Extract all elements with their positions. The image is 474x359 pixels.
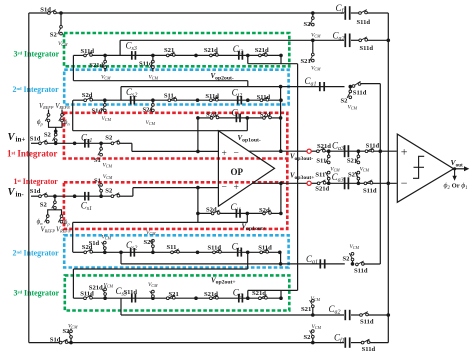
svg-text:S11d: S11d (205, 93, 219, 100)
capacitor Cs2 (2nd row) (130, 96, 132, 105)
2nd int box left edge (120, 87, 122, 101)
node 2nd row x152.9 + S21 vert (151, 98, 155, 102)
node y213.4 x247.3 (246, 212, 250, 216)
svg-text:S21d: S21d (89, 285, 103, 292)
wire vertical x280.6 y252.3-263.4 (280, 252, 282, 264)
node y183.3 x328.7 (327, 182, 331, 186)
node Ci1 row x280.6 (279, 116, 283, 120)
switch S11d (2nd row mid) (210, 99, 213, 102)
node y263.4 x350.3 (351, 262, 355, 266)
node input rail x55.7 (54, 142, 58, 146)
node x197.9 y213.4 (196, 212, 200, 216)
switch S11d (2nd row right) (260, 99, 263, 102)
svg-text:S11d: S11d (354, 268, 368, 275)
3rd int box left edge (119, 40, 121, 55)
switch S1d (bottom rail) (59, 341, 62, 344)
node 3rd row x281 (279, 54, 283, 58)
svg-text:VCM: VCM (102, 116, 112, 122)
svg-text:S1d: S1d (89, 240, 100, 247)
switch S11d (y263.4 to bus A) (356, 263, 359, 266)
switch S11d (bottom rail) (361, 341, 364, 344)
comparator output arrow Vout (454, 168, 465, 170)
switch S2 (y342.6 up to Vcm) (312, 337, 314, 342)
wire Vop2out+ rail y269 (73, 268, 247, 270)
wire Ci1 row y117.9 (198, 117, 212, 119)
node 2nd row x104.8 (103, 98, 107, 102)
2nd int bottom box left edge (120, 252, 122, 264)
svg-text:S2: S2 (40, 202, 48, 209)
node Vop3out- red circle (307, 149, 311, 153)
3rd integrator dashed box (bottom) (65, 275, 289, 310)
capacitor C0 (bottom 3rd row) (238, 294, 240, 303)
switch S2 (VREF mux to input rail) (54, 133, 57, 136)
wire C0 bypass loop (247, 55, 249, 63)
svg-text:VCM: VCM (146, 230, 156, 236)
capacitor Cs1 (input rail) (84, 139, 86, 148)
capacitor Ca3 (y151.2) (344, 145, 346, 157)
switch S2 (bottom-left up to Vcm) (70, 338, 72, 343)
capacitor Ci3 (bottom 3rd row) (131, 294, 133, 303)
switch S1d (input rail) (39, 142, 42, 145)
switch phi_p (VREFP leg) (48, 110, 50, 115)
switch S21d (3rd row mid) (210, 54, 213, 57)
switch S21 (y151.2 to Vcm) (357, 151, 359, 156)
svg-text:S11: S11 (315, 172, 325, 179)
wire Ci1 row y213.4 (198, 212, 213, 214)
node 2nd row x247.8 (246, 98, 250, 102)
svg-text:VCM: VCM (312, 324, 322, 330)
wire drop to op-amp + input (131, 143, 133, 151)
svg-text:VCM: VCM (149, 75, 159, 81)
wire y222.4 (bottom VREF box) (73, 221, 248, 223)
wire step x247.8 to y86.6 (247, 81, 249, 87)
comparator clock symbol (413, 156, 424, 178)
svg-text:VCM: VCM (148, 282, 158, 288)
wire vertical x72.7 y222.4-252.3 (72, 222, 74, 252)
capacitor Ci3 (3rd row) (131, 51, 133, 60)
node on top rail x312.8 (311, 11, 315, 15)
wire rise to op-amp - input (132, 188, 134, 197)
node bus A y151.2 (379, 149, 383, 153)
wire vertical x72.7 (72, 100, 74, 131)
node y252.3 x247.7 (246, 251, 250, 255)
node y151.2 x280.8 (279, 149, 283, 153)
capacitor C0 (3rd row) (238, 51, 240, 60)
node y213.4 x280.9 (279, 212, 283, 216)
wire Vop1out+ output y183.3 (253, 182, 308, 184)
switch S1d (top-left rail) (48, 12, 51, 15)
node 2nd row x281 (279, 98, 283, 102)
wire 2nd-int bottom row y252.3 (73, 251, 85, 253)
svg-text:S21d: S21d (204, 291, 218, 298)
capacitor Ca3 (y183.3) (344, 177, 346, 189)
red box shared right edge (286, 159, 289, 183)
wire VREF mux join (49, 122, 63, 128)
node y252.3 x279.8 (278, 251, 282, 255)
switch S2d (Ci1 row right) (263, 117, 266, 120)
svg-text:V: V (8, 187, 16, 198)
svg-text:S11d: S11d (257, 94, 271, 101)
svg-text:ϕ2 Or ϕ1: ϕ2 Or ϕ1 (444, 181, 468, 191)
op-amp U1 triangle (218, 131, 274, 207)
node y298.9 x281 (279, 296, 283, 300)
node y196.2 x74.6 (73, 194, 77, 198)
node 2nd row x197.5 (196, 98, 200, 102)
switch S11d (y151.2 right) (365, 150, 368, 153)
switch S11d (y86.6 to bus A) (352, 85, 355, 88)
capacitor Ci1 (top) (235, 114, 237, 123)
switch S1d (input rail bottom) (39, 195, 42, 198)
svg-text:S11: S11 (164, 93, 174, 100)
svg-text:S11d: S11d (360, 45, 374, 52)
switch S2d (bottom 2nd row left) (84, 251, 87, 254)
node y196.2 x101.1 (99, 194, 103, 198)
wire rail y86.6 (121, 86, 345, 88)
node y314.3 x312.8 (311, 313, 315, 317)
switch S11d (y314.3) (360, 314, 363, 317)
capacitor Ci1 (bottom) (235, 209, 237, 218)
wire vertical x280.6 y86.6-151.2 (280, 87, 282, 152)
switch S11d (rail y40) (359, 39, 362, 42)
node x280.6 y86.6 (279, 85, 283, 89)
node 3rd row x196 (194, 54, 198, 58)
switch S2d (Ci1 row left) (210, 117, 213, 120)
wire input rail y196.2 (31, 195, 40, 197)
node y183.3 x280.9 (279, 182, 283, 186)
svg-text:S21: S21 (301, 306, 311, 313)
wire vertical x247.3 y213.4-222.4 (246, 213, 248, 222)
svg-text:S11d: S11d (353, 90, 367, 97)
svg-text:S1d: S1d (30, 188, 41, 195)
node 3rd row x105.1 (103, 54, 107, 58)
switch S2 (y86.6 to Vcm) (349, 87, 351, 91)
svg-text:VCM: VCM (311, 66, 321, 72)
node rail y40 x312.8 (311, 39, 315, 43)
capacitor Ca2 (rail y40) (344, 34, 346, 48)
node y252.3 x152.9 + S21 vert up (151, 251, 155, 255)
svg-text:+: + (222, 149, 227, 159)
svg-text:S11d: S11d (363, 188, 377, 195)
svg-text:S11: S11 (316, 158, 326, 165)
svg-text:S1d: S1d (30, 135, 41, 142)
wire rail y314.3 (121, 314, 344, 316)
svg-text:S2: S2 (341, 98, 349, 105)
svg-text:−: − (401, 176, 408, 190)
node input rail x101.1 (99, 142, 103, 146)
svg-text:VCM: VCM (68, 324, 78, 330)
wire vertical x280.9 y183-213 (280, 183, 282, 213)
switch phi_p (bottom VREFN leg) (60, 215, 63, 218)
svg-text:S1: S1 (94, 157, 101, 164)
svg-text:S21: S21 (301, 58, 311, 65)
1st integrator dashed box (top) (64, 113, 287, 159)
switch S11d (top rail) (359, 12, 362, 15)
node on top rail x61 (59, 11, 63, 15)
capacitor Cf1 (bottom rail) (344, 337, 346, 347)
wire input rail y143.3 (31, 142, 40, 144)
switch S21d (y183.3) (317, 182, 320, 185)
capacitor Cs2 (bottom 2nd row) (130, 248, 132, 257)
node y298.9 x152.9 + S11d vert up (151, 296, 155, 300)
svg-text:OP: OP (231, 167, 244, 177)
switch S21 (3rd row) (166, 54, 169, 57)
node y183.3 x358.4 (357, 182, 361, 186)
svg-text:VCM: VCM (104, 283, 114, 289)
wire vertical x197.9 y187.6-222.4 (197, 188, 199, 223)
switch S2 (top-left, vertical) (60, 13, 62, 26)
svg-text:S11: S11 (167, 244, 177, 251)
node VREF mux (54, 130, 58, 134)
switch S2 (input rail) (111, 142, 114, 145)
switch S1 (input rail to Vcm) (100, 143, 102, 148)
svg-text:S21: S21 (348, 172, 358, 179)
svg-text:S21d: S21d (315, 186, 329, 193)
svg-text:S21d: S21d (89, 62, 103, 69)
2nd integrator dashed box (top) (64, 70, 288, 105)
switch S11 (y183.3 up to Vcm) (328, 179, 330, 183)
node x197.9 y151.4 (196, 150, 200, 154)
svg-text:in+: in+ (16, 136, 26, 144)
node y252.3 x104.8 (103, 251, 107, 255)
switch S21d (3rd row, vertical to Vcm) (104, 55, 106, 61)
switch S21d (y151.2) (317, 150, 320, 153)
node bus B y314.3 (387, 313, 391, 317)
wire riser x73.4 y269-298.9 (72, 269, 74, 298)
svg-text:S2: S2 (50, 31, 58, 38)
svg-text:VCM: VCM (58, 41, 68, 47)
switch S2d (2nd row left) (84, 99, 87, 102)
switch S2d (bottom Ci1 row left) (211, 212, 214, 215)
wire bottom mux split (54, 208, 56, 211)
switch S11d (bottom 3rd row left) (84, 297, 87, 300)
switch S21d (3rd row right) (259, 54, 262, 57)
switch S11d (3rd row left) (84, 54, 87, 57)
node y342.6 x312.8 (311, 341, 315, 345)
node y252.3 x197.5 (196, 251, 200, 255)
svg-text:S2: S2 (44, 131, 52, 138)
node x197.9 y117.9 (196, 116, 200, 120)
wire Vop1out- output y151.2 (249, 150, 307, 152)
svg-text:S11d: S11d (258, 245, 272, 252)
switch S11d (bottom 2nd row mid) (213, 251, 216, 254)
node y298.9 x247.8 (246, 296, 250, 300)
svg-text:S2: S2 (343, 255, 351, 262)
bus B top corner (387, 13, 389, 343)
switch S21 (y314.3 up to Vcm) (312, 307, 314, 315)
svg-text:VCM: VCM (103, 174, 113, 180)
svg-text:S2d: S2d (206, 112, 217, 119)
node comparator output (453, 167, 456, 170)
wire vertical x247.7 y252.3-269 (247, 252, 249, 269)
svg-text:S2d: S2d (82, 92, 93, 99)
wire op-amp - input y187.6 (133, 187, 218, 189)
switch S11 (bottom 2nd row) (171, 251, 174, 254)
wire bottom rail y342.6 (29, 342, 61, 344)
svg-text:S21: S21 (144, 239, 154, 246)
node Ci1 row x247.3 (246, 116, 250, 120)
svg-text:VCM: VCM (360, 167, 370, 173)
svg-text:VCM: VCM (311, 296, 321, 302)
node 3rd row x152.9 (151, 54, 155, 58)
wire bottom C0 bypass loop (247, 290, 249, 298)
wire rail y40 (3rd int top edge to Ca2) (120, 39, 344, 41)
svg-text:S1: S1 (94, 178, 101, 185)
svg-text:S2: S2 (105, 187, 113, 194)
1st integrator dashed box (bottom) (64, 182, 287, 229)
svg-text:S2d: S2d (260, 112, 271, 119)
svg-text:S21: S21 (164, 47, 174, 54)
switch S21 (y183.3 up to Vcm) (357, 179, 359, 183)
svg-text:S2: S2 (304, 334, 312, 341)
svg-text:S11d: S11d (357, 19, 371, 26)
svg-text:S11d: S11d (139, 60, 153, 67)
node y342.6 x71 (69, 341, 73, 345)
svg-text:+: + (234, 183, 239, 193)
svg-text:S2: S2 (105, 135, 113, 142)
capacitor Ca1 (y86.6 rail) (319, 82, 321, 91)
switch S1d (2nd row to Vcm) (104, 100, 106, 104)
svg-text:S21d: S21d (204, 47, 218, 54)
switch S1 (bottom input rail up to Vcm) (100, 191, 102, 196)
wire 2nd-int row y100.2 (73, 99, 85, 101)
svg-text:S21d: S21d (317, 143, 331, 150)
svg-text:S11d: S11d (81, 48, 95, 55)
wire long vertical x297.6 (297, 64, 299, 291)
svg-text:S1d: S1d (40, 7, 51, 14)
svg-text:in-: in- (16, 191, 25, 199)
svg-text:VCM: VCM (146, 120, 156, 126)
switch S11d (y183.3 right) (364, 182, 367, 185)
svg-text:1st Integrator: 1st Integrator (14, 177, 59, 186)
capacitor Cs1 (bottom input rail) (84, 192, 86, 201)
capacitor Ci2 (bottom 2nd row) (237, 248, 239, 257)
wire y130.7 from VREF box (73, 130, 248, 132)
switch phi_n (VREFN leg) (61, 110, 63, 115)
svg-text:1st Integrator: 1st Integrator (7, 149, 57, 159)
svg-text:VCM: VCM (101, 75, 111, 81)
node input rail x74.6 (73, 142, 77, 146)
svg-text:S11d: S11d (366, 143, 380, 150)
node bus B y183.3 (387, 182, 391, 186)
svg-text:S1d: S1d (92, 107, 103, 114)
svg-text:VCM: VCM (348, 105, 358, 111)
node y151.2 x328.7 (327, 149, 331, 153)
node y196.2 x54.9 (53, 194, 57, 198)
capacitor Ca2 (y314.3) (344, 310, 346, 320)
switch S2d (bottom Ci1 row right) (263, 212, 266, 215)
svg-text:S1d: S1d (50, 337, 61, 344)
node y298.9 x105.1 (103, 296, 107, 300)
node x280.6 y263.4 (279, 262, 283, 266)
switch S2 (top rail to Vcm, vertical) (312, 13, 314, 17)
node y151.2 x358.4 (357, 149, 361, 153)
node y86.6 x350.3 (349, 85, 353, 89)
wire vertical x197.9 (197, 118, 199, 151)
switch S2 (y263.4 up to Vcm) (352, 260, 354, 264)
capacitor Ca1 (y263.4) (319, 259, 321, 268)
svg-text:S11d: S11d (362, 346, 376, 353)
3rd int bottom box left edge (120, 298, 122, 315)
svg-text:+: + (401, 144, 408, 158)
svg-text:S11d: S11d (360, 319, 374, 326)
svg-text:V: V (8, 132, 16, 143)
svg-text:VCM: VCM (103, 163, 113, 169)
node x121 y252.3 (119, 251, 123, 255)
wire vertical x247.3 Ci1 right (246, 118, 248, 131)
wire outer left vertical (28, 13, 30, 343)
wire rail y263.4 (121, 263, 345, 265)
comparator U2 triangle (397, 134, 453, 202)
switch S2 (bottom input rail) (111, 195, 114, 198)
wire riser x73.4 3rd row (72, 55, 74, 80)
switch S21d (bottom 3rd row mid) (210, 297, 213, 300)
node x197.9 y187.6 (196, 186, 200, 190)
capacitor Ci2 (2nd row) (237, 96, 239, 105)
svg-text:S11d: S11d (208, 245, 222, 252)
wire top rail (29, 12, 48, 14)
wire 3rd-int row y55.4 (73, 54, 85, 56)
svg-text:−: − (234, 149, 239, 159)
switch S21d (bottom 3rd row right) (259, 297, 262, 300)
switch S11d (3rd row x152.9 vertical to Vcm) (152, 55, 154, 61)
switch S21d (bottom 3rd row up to Vcm) (104, 295, 106, 299)
switch S11d (bottom 2nd row right) (260, 251, 263, 254)
wire Vop2out- rail y80.7 (73, 80, 247, 82)
node y298.9 x196 (194, 296, 198, 300)
switch S1d (bottom 2nd row up to Vcm) (104, 249, 106, 253)
arrow down from output (454, 169, 456, 177)
node 3rd row x247.8 (246, 54, 250, 58)
node bus B y40 (387, 39, 391, 43)
switch S11 (y151.2 to Vcm) (328, 151, 330, 156)
svg-text:S21: S21 (169, 291, 179, 298)
svg-text:−: − (222, 183, 227, 193)
svg-text:S21: S21 (143, 107, 153, 114)
switch S21 (bottom 3rd row) (166, 297, 169, 300)
svg-text:VCM: VCM (311, 32, 321, 38)
svg-text:S21: S21 (347, 158, 357, 165)
capacitor Cf1 (top rail) (344, 6, 346, 20)
svg-text:S2d: S2d (206, 207, 217, 214)
node Vop3out+ red circle (307, 181, 311, 185)
svg-text:VCM: VCM (350, 244, 360, 250)
2nd integrator dashed box (bottom) (64, 235, 288, 267)
3rd integrator dashed box (top) (64, 33, 289, 66)
switch S11 (2nd row) (168, 99, 171, 102)
svg-text:S21d: S21d (255, 47, 269, 54)
switch phi_n (bottom VREFP leg) (46, 215, 49, 218)
switch S21 (rail y40 to Vcm) (312, 40, 314, 54)
wire 3rd-int bottom row y298.9 (73, 297, 85, 299)
bus A vertical x380.3 (379, 84, 381, 264)
svg-text:S2: S2 (304, 21, 312, 28)
switch S2 (bottom VREF mux) (54, 196, 56, 201)
svg-text:S2d: S2d (259, 207, 270, 214)
svg-text:VCM: VCM (102, 234, 112, 240)
